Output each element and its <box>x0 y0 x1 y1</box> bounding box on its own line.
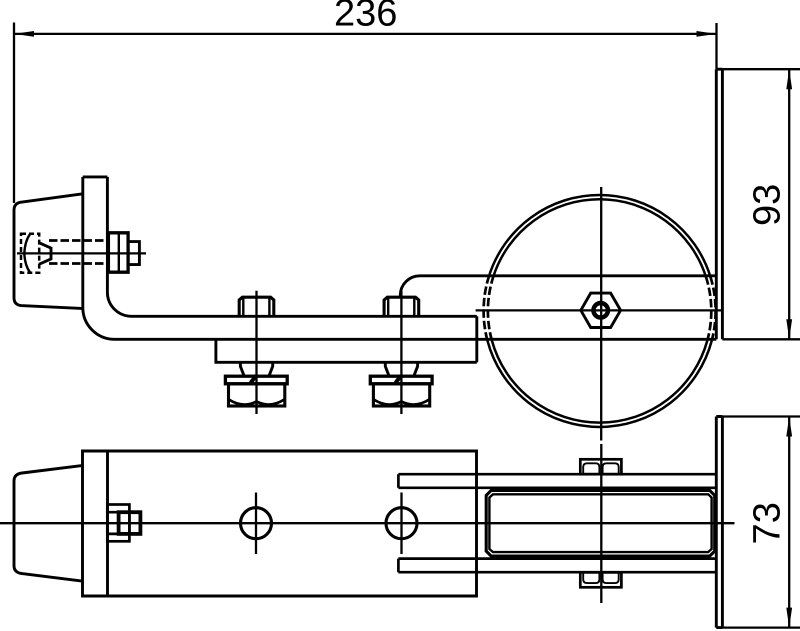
svg-text:73: 73 <box>747 502 789 544</box>
svg-text:93: 93 <box>747 184 789 226</box>
svg-text:236: 236 <box>334 0 397 34</box>
